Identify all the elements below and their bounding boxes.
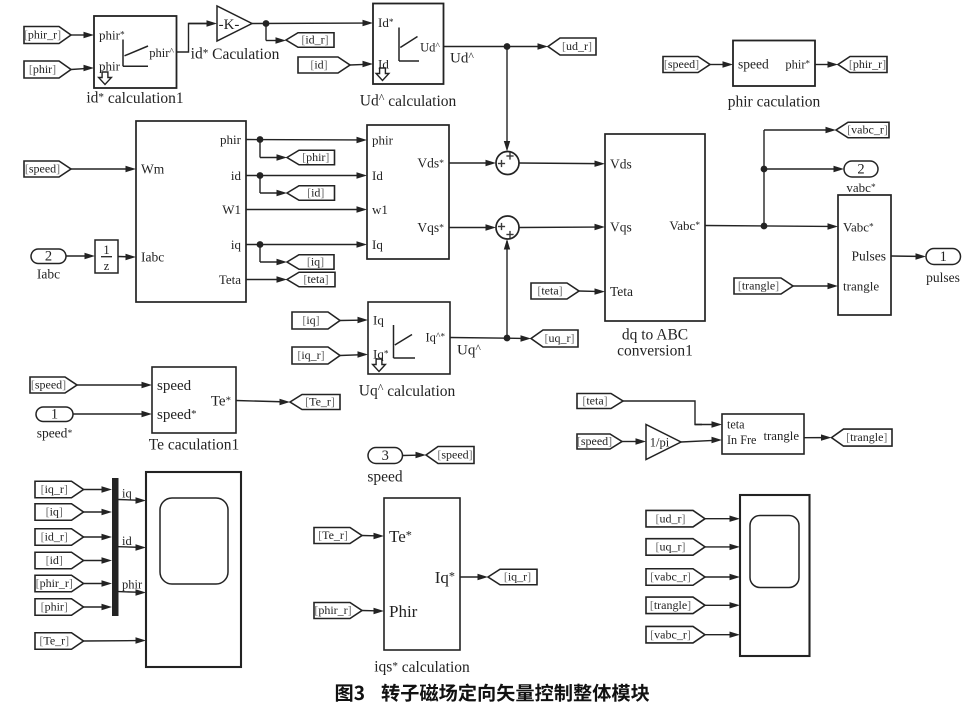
svg-text:dq to ABC: dq to ABC — [622, 326, 688, 343]
svg-text:iq: iq — [231, 237, 242, 252]
svg-text:2: 2 — [45, 249, 52, 265]
svg-text:[id]: [id] — [310, 58, 327, 72]
svg-text:phir: phir — [122, 577, 143, 591]
svg-text:3: 3 — [382, 448, 389, 464]
svg-text:[iq]: [iq] — [46, 505, 63, 519]
svg-text:[id]: [id] — [307, 186, 324, 200]
svg-text:[speed]: [speed] — [577, 434, 612, 448]
svg-text:phir: phir — [99, 58, 121, 73]
svg-text:1: 1 — [103, 243, 109, 257]
svg-text:iqs* calculation: iqs* calculation — [374, 658, 470, 676]
svg-text:Iq: Iq — [373, 312, 384, 327]
svg-text:z: z — [104, 259, 110, 273]
svg-text:Id: Id — [372, 168, 383, 183]
svg-text:Iq: Iq — [372, 237, 383, 252]
svg-text:[phir]: [phir] — [302, 150, 329, 164]
svg-text:speed*: speed* — [37, 426, 73, 441]
svg-text:phir: phir — [372, 132, 394, 147]
svg-text:W1: W1 — [222, 202, 241, 217]
svg-text:[ud_r]: [ud_r] — [562, 39, 592, 53]
svg-text:[teta]: [teta] — [303, 272, 328, 286]
svg-text:[iq_r]: [iq_r] — [297, 348, 324, 362]
svg-text:[phir_r]: [phir_r] — [849, 57, 886, 71]
svg-text:speed: speed — [157, 378, 192, 394]
svg-text:[trangle]: [trangle] — [846, 430, 887, 444]
svg-text:Teta: Teta — [219, 272, 241, 287]
svg-text:Iabc: Iabc — [37, 267, 60, 282]
svg-text:[teta]: [teta] — [537, 284, 562, 298]
svg-text:[phir]: [phir] — [41, 600, 68, 614]
svg-text:[uq_r]: [uq_r] — [656, 539, 686, 553]
svg-text:[trangle]: [trangle] — [738, 279, 779, 293]
svg-text:phir: phir — [220, 132, 242, 147]
svg-text:Pulses: Pulses — [851, 249, 886, 264]
svg-text:Wm: Wm — [141, 162, 165, 177]
svg-text:[trangle]: [trangle] — [650, 598, 691, 612]
svg-text:[speed]: [speed] — [664, 57, 699, 71]
svg-text:Phir: Phir — [389, 602, 418, 621]
svg-text:id: id — [231, 168, 242, 183]
svg-text:[speed]: [speed] — [25, 162, 60, 176]
svg-text:Vqs*: Vqs* — [417, 220, 444, 235]
svg-text:[vabc_r]: [vabc_r] — [847, 123, 888, 137]
svg-text:-K-: -K- — [219, 17, 240, 33]
svg-text:[vabc_r]: [vabc_r] — [650, 627, 691, 641]
svg-text:teta: teta — [727, 418, 745, 432]
svg-text:1: 1 — [940, 249, 947, 265]
svg-text:Vqs: Vqs — [610, 219, 632, 234]
svg-text:[id_r]: [id_r] — [41, 530, 68, 544]
svg-text:Teta: Teta — [610, 284, 633, 299]
svg-text:[iq_r]: [iq_r] — [504, 570, 531, 584]
svg-text:[ud_r]: [ud_r] — [656, 511, 686, 525]
svg-text:[Te_r]: [Te_r] — [305, 395, 335, 409]
svg-text:Uq^ calculation: Uq^ calculation — [359, 382, 456, 400]
svg-text:[phir_r]: [phir_r] — [36, 576, 73, 590]
svg-text:speed: speed — [367, 468, 403, 485]
svg-text:[speed]: [speed] — [437, 448, 472, 462]
svg-text:trangle: trangle — [763, 429, 799, 443]
svg-text:[id]: [id] — [46, 553, 63, 567]
svg-text:Ud^ calculation: Ud^ calculation — [360, 92, 457, 110]
svg-text:conversion1: conversion1 — [617, 342, 693, 359]
svg-text:[teta]: [teta] — [582, 394, 607, 408]
svg-text:In Fre: In Fre — [727, 433, 756, 447]
svg-text:[iq]: [iq] — [307, 255, 324, 269]
svg-text:1/pi: 1/pi — [650, 435, 670, 449]
svg-text:Iabc: Iabc — [141, 250, 164, 265]
svg-text:iq: iq — [122, 486, 132, 500]
svg-text:[vabc_r]: [vabc_r] — [650, 570, 691, 584]
svg-text:[id_r]: [id_r] — [301, 33, 328, 47]
svg-text:trangle: trangle — [843, 278, 879, 293]
svg-text:[phir]: [phir] — [29, 62, 56, 76]
svg-text:phir caculation: phir caculation — [728, 93, 821, 110]
svg-text:[phir_r]: [phir_r] — [314, 603, 351, 617]
svg-text:2: 2 — [857, 161, 864, 177]
svg-text:[iq]: [iq] — [302, 313, 319, 327]
svg-text:1: 1 — [51, 407, 58, 423]
svg-text:[speed]: [speed] — [31, 378, 66, 392]
svg-text:[Te_r]: [Te_r] — [39, 634, 69, 648]
svg-text:Vds*: Vds* — [417, 156, 444, 171]
svg-text:w1: w1 — [372, 202, 388, 217]
svg-text:id: id — [122, 534, 132, 548]
svg-text:pulses: pulses — [926, 270, 960, 285]
svg-text:Te caculation1: Te caculation1 — [149, 436, 240, 453]
svg-text:speed: speed — [738, 57, 769, 72]
svg-text:[Te_r]: [Te_r] — [318, 528, 348, 542]
svg-text:Vds: Vds — [610, 156, 632, 171]
svg-text:[uq_r]: [uq_r] — [545, 331, 575, 345]
svg-text:[iq_r]: [iq_r] — [41, 482, 68, 496]
svg-text:[phir_r]: [phir_r] — [24, 28, 61, 42]
svg-text:speed*: speed* — [157, 407, 197, 423]
